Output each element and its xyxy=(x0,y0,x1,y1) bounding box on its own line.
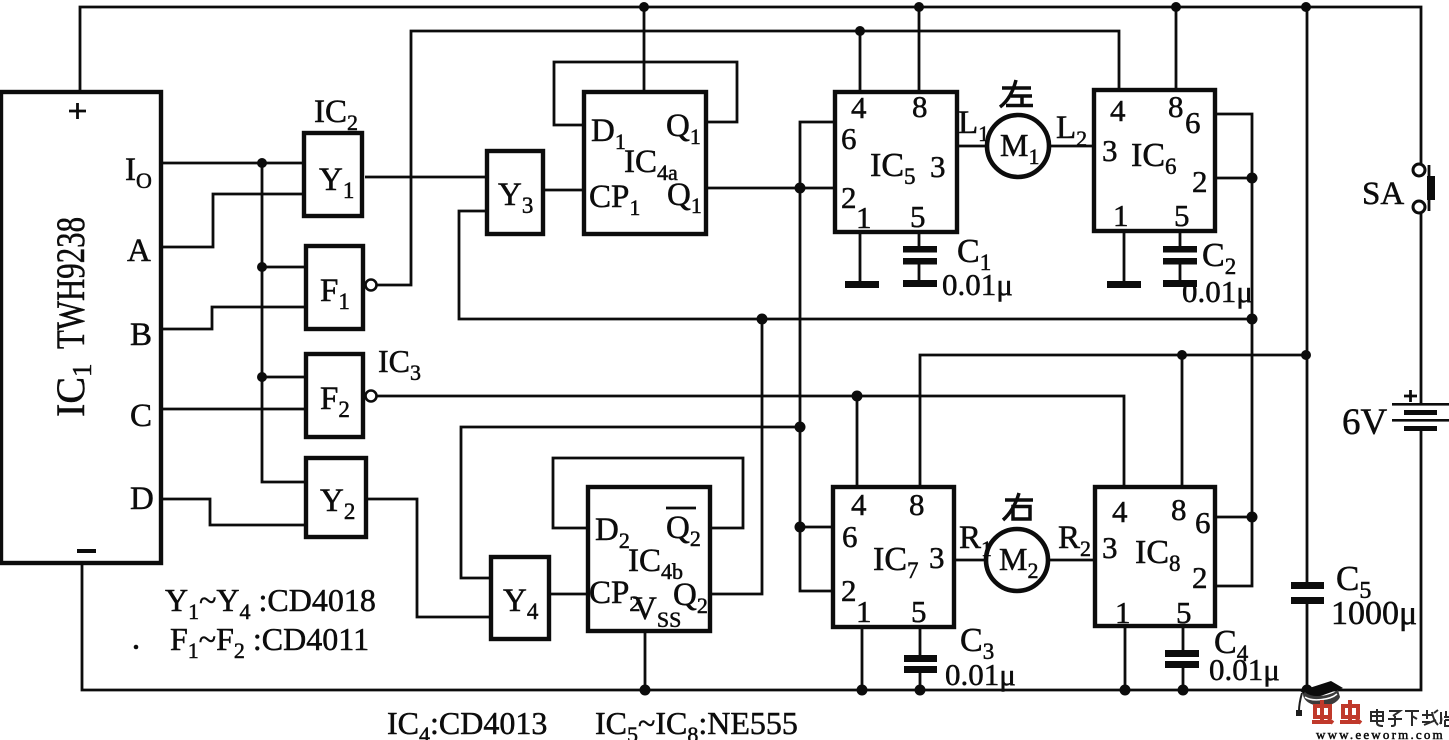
svg-text:4: 4 xyxy=(1112,494,1128,529)
svg-text:1000μ: 1000μ xyxy=(1331,595,1417,632)
svg-text:B: B xyxy=(130,317,152,353)
svg-text:0.01μ: 0.01μ xyxy=(942,267,1013,302)
svg-text:2: 2 xyxy=(1192,560,1208,595)
svg-text:F1~F2 :CD4011: F1~F2 :CD4011 xyxy=(170,621,369,663)
svg-text:5: 5 xyxy=(910,199,926,234)
svg-text:6: 6 xyxy=(841,121,857,156)
svg-text:5: 5 xyxy=(911,594,927,629)
svg-text:8: 8 xyxy=(912,89,928,124)
svg-text:1: 1 xyxy=(1113,198,1129,233)
svg-text:1: 1 xyxy=(856,200,872,235)
svg-text:0.01μ: 0.01μ xyxy=(1182,274,1253,309)
svg-text:D: D xyxy=(130,481,154,517)
svg-text:A: A xyxy=(127,233,151,269)
svg-text:6: 6 xyxy=(1185,105,1201,140)
svg-text:2: 2 xyxy=(841,180,857,215)
svg-text:5: 5 xyxy=(1174,198,1190,233)
svg-text:2: 2 xyxy=(841,573,857,608)
svg-text:1: 1 xyxy=(856,594,872,629)
svg-text:www.eeworm.com: www.eeworm.com xyxy=(1316,727,1445,740)
svg-text:4: 4 xyxy=(851,90,867,125)
svg-text:3: 3 xyxy=(1102,133,1118,168)
svg-text:6V: 6V xyxy=(1342,402,1388,443)
svg-text:3: 3 xyxy=(930,149,946,184)
svg-text:5: 5 xyxy=(1176,595,1192,630)
svg-text:TWH9238: TWH9238 xyxy=(48,217,93,349)
svg-text:2: 2 xyxy=(1192,164,1208,199)
svg-text:4: 4 xyxy=(851,487,867,522)
svg-text:8: 8 xyxy=(1171,492,1187,527)
svg-text:IC4:CD4013: IC4:CD4013 xyxy=(387,705,547,740)
svg-text:6: 6 xyxy=(1195,505,1211,540)
svg-text:1: 1 xyxy=(1115,595,1131,630)
svg-text:4: 4 xyxy=(1110,93,1126,128)
svg-text:3: 3 xyxy=(929,540,945,575)
svg-text:0.01μ: 0.01μ xyxy=(1209,652,1280,687)
svg-text:8: 8 xyxy=(1168,89,1184,124)
svg-text:C: C xyxy=(130,398,152,434)
svg-text:6: 6 xyxy=(842,519,858,554)
svg-text:8: 8 xyxy=(909,487,925,522)
svg-text:SA: SA xyxy=(1362,176,1404,212)
svg-text:3: 3 xyxy=(1102,530,1118,565)
svg-text:0.01μ: 0.01μ xyxy=(945,657,1016,692)
